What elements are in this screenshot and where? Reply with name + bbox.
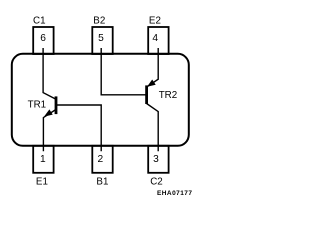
wire: TR1 base to pin 2	[57, 105, 101, 151]
pin 5 box	[92, 27, 112, 54]
wire: pin 6 to TR1 collector	[43, 48, 56, 99]
svg-text:5: 5	[98, 33, 104, 44]
svg-text:C1: C1	[33, 16, 46, 27]
pin 3 box	[148, 146, 168, 173]
svg-text:E1: E1	[36, 177, 48, 188]
svg-text:TR2: TR2	[159, 90, 178, 101]
transistor Q TR1 base bar	[55, 96, 58, 114]
transistor Q TR1 emitter arrow (NPN)	[44, 109, 53, 116]
pin 4 box	[148, 27, 168, 54]
svg-text:6: 6	[40, 33, 46, 44]
wire: TR1 emitter to pin 1	[43, 110, 56, 152]
wire: pin 4 to TR2 emitter	[147, 48, 159, 87]
svg-text:4: 4	[152, 33, 158, 44]
wire: pin 5 to TR2 base	[101, 48, 145, 95]
svg-text:TR1: TR1	[28, 100, 47, 111]
wire: TR2 collector to pin 3	[147, 104, 159, 152]
svg-text:C2: C2	[150, 177, 163, 188]
svg-text:B2: B2	[93, 16, 105, 27]
transistor Q TR2 base bar	[145, 85, 148, 104]
svg-text:EHA07177: EHA07177	[157, 190, 192, 197]
svg-text:1: 1	[40, 154, 46, 165]
package body outline	[12, 54, 189, 146]
pin 6 box	[33, 27, 53, 54]
transistor Q TR2 emitter arrow (PNP)	[147, 80, 156, 87]
svg-text:2: 2	[97, 154, 103, 165]
svg-text:3: 3	[153, 154, 159, 165]
svg-text:E2: E2	[149, 16, 161, 27]
pin 2 box	[92, 146, 112, 173]
svg-text:B1: B1	[96, 177, 108, 188]
pin 1 box	[33, 146, 53, 173]
